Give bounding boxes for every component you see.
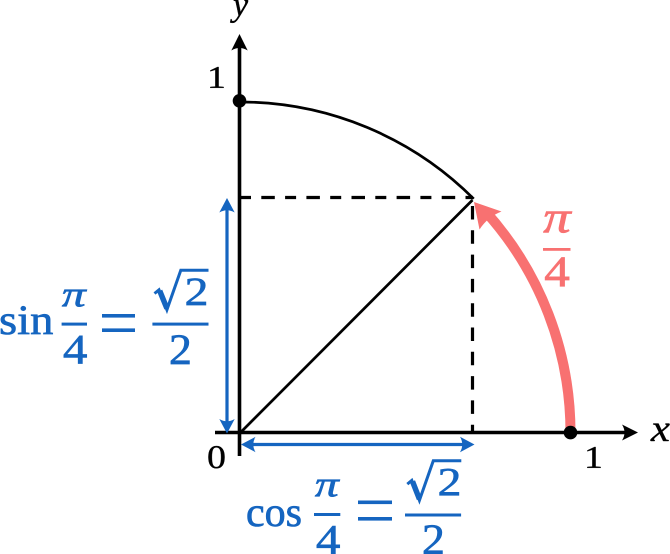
pink label 4	[545, 258, 569, 287]
cos fraction bar sqrt2/2	[405, 514, 461, 517]
label 1 on y-axis	[210, 67, 223, 88]
sin equals sign	[102, 314, 135, 332]
label x	[650, 424, 669, 441]
cos denominator 2	[424, 525, 442, 554]
label 0 at origin	[208, 446, 224, 468]
sin sqrt2 numerator 2	[187, 279, 206, 305]
sin label	[1, 306, 53, 334]
sin 4 denominator	[64, 336, 87, 364]
radius line at 45 deg	[240, 200, 473, 433]
pink angle arc	[485, 211, 570, 432]
blue horizontal double arrow	[241, 437, 475, 452]
y-axis	[231, 34, 247, 456]
point (1,0)	[564, 426, 578, 440]
sin pi numerator	[62, 290, 87, 307]
sin fraction bar pi/4	[62, 323, 87, 326]
cos label	[248, 506, 301, 526]
cos fraction bar pi/4	[314, 513, 340, 516]
sin fraction bar sqrt2/2	[152, 323, 208, 326]
cos equals sign	[358, 501, 392, 521]
label 1 on x-axis	[587, 447, 600, 468]
pink arc arrowhead	[474, 202, 502, 230]
label y	[230, 0, 248, 23]
cos sqrt2 numerator 2	[440, 469, 459, 495]
pink fraction bar	[543, 248, 571, 251]
cos radical sign	[407, 461, 461, 501]
sin radical sign	[155, 270, 209, 310]
cos 4 denominator	[317, 526, 340, 554]
unit circle arc	[240, 102, 474, 199]
x-axis	[215, 425, 638, 441]
blue vertical double arrow	[219, 198, 234, 434]
dashed vertical projection	[471, 206, 474, 432]
point (0,1)	[233, 94, 247, 108]
sin denominator 2	[171, 335, 189, 364]
dashed horizontal projection	[240, 196, 473, 199]
cos pi numerator	[315, 480, 340, 497]
pink label pi	[543, 212, 571, 233]
